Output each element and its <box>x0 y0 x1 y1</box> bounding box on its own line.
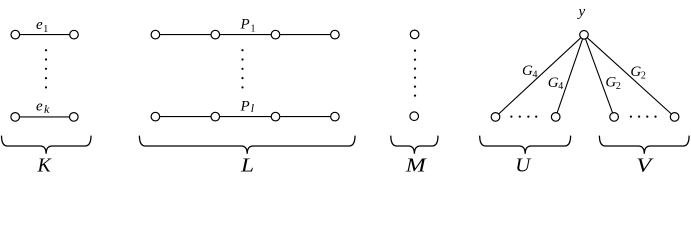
brace V <box>599 136 689 154</box>
svg-text:K: K <box>37 155 53 177</box>
node y apex <box>580 31 589 40</box>
svg-text:P: P <box>240 99 250 115</box>
svg-text:2: 2 <box>641 71 646 82</box>
node Pl vertex 2 <box>211 112 220 121</box>
dots U row <box>510 116 537 118</box>
label G4 outer <box>522 63 538 81</box>
wire star edge to U leaf 2 <box>556 35 584 117</box>
svg-text:k: k <box>44 102 50 116</box>
node P1 vertex 4 <box>331 30 340 39</box>
svg-text:y: y <box>577 4 586 20</box>
wire P1 path segment 3 <box>276 34 335 36</box>
node M bottom vertex <box>410 112 419 121</box>
svg-text:2: 2 <box>616 81 621 92</box>
svg-text:P: P <box>240 17 250 33</box>
node e1 right vertex <box>70 30 79 39</box>
svg-text:e: e <box>36 99 43 115</box>
label P1 <box>240 17 256 35</box>
node U leaf 1 <box>491 113 500 122</box>
wire P1 path segment 1 <box>155 34 215 36</box>
wire ek edge <box>15 116 74 118</box>
label G2 outer <box>630 64 646 82</box>
svg-text:G: G <box>630 64 641 80</box>
node M top vertex <box>410 30 419 39</box>
wire star edge to V leaf 1 <box>584 35 614 117</box>
svg-text:1: 1 <box>43 24 48 35</box>
wire star edge to U leaf 1 <box>496 35 585 117</box>
node P1 vertex 2 <box>211 30 220 39</box>
node Pl vertex 3 <box>271 112 280 121</box>
svg-text:G: G <box>548 75 559 91</box>
dots M column <box>414 50 416 97</box>
brace M <box>391 136 438 154</box>
svg-text:U: U <box>515 155 532 177</box>
svg-text:G: G <box>522 63 533 79</box>
svg-text:4: 4 <box>558 81 563 92</box>
node U leaf 2 <box>551 113 560 122</box>
dots L column <box>241 49 243 88</box>
label e1 <box>36 17 48 35</box>
dots K column <box>45 49 47 88</box>
brace U <box>480 136 571 154</box>
wire star edge to V leaf 2 <box>584 35 675 117</box>
wire Pl path segment 2 <box>215 116 275 118</box>
node ek right vertex <box>70 113 79 122</box>
svg-text:M: M <box>405 155 428 177</box>
node ek left vertex <box>11 113 20 122</box>
label Pl <box>240 99 255 116</box>
wire P1 path segment 2 <box>215 34 275 36</box>
svg-text:1: 1 <box>251 24 256 35</box>
node e1 left vertex <box>11 30 20 39</box>
node P1 vertex 3 <box>271 30 280 39</box>
node Pl vertex 1 <box>151 112 160 121</box>
node V leaf 2 <box>670 113 679 122</box>
svg-text:G: G <box>605 75 616 91</box>
wire Pl path segment 3 <box>276 116 335 118</box>
brace K <box>2 136 92 154</box>
wire Pl path segment 1 <box>155 116 215 118</box>
brace L <box>139 136 355 154</box>
svg-text:4: 4 <box>533 70 538 81</box>
dots V row <box>630 116 657 118</box>
svg-text:e: e <box>36 17 43 33</box>
svg-text:L: L <box>240 155 254 177</box>
label G4 inner <box>548 75 564 92</box>
wire e1 edge <box>15 34 74 36</box>
label G2 inner <box>605 75 621 93</box>
node V leaf 1 <box>610 113 619 122</box>
label ek <box>36 99 50 117</box>
node Pl vertex 4 <box>331 112 340 121</box>
node P1 vertex 1 <box>151 30 160 39</box>
